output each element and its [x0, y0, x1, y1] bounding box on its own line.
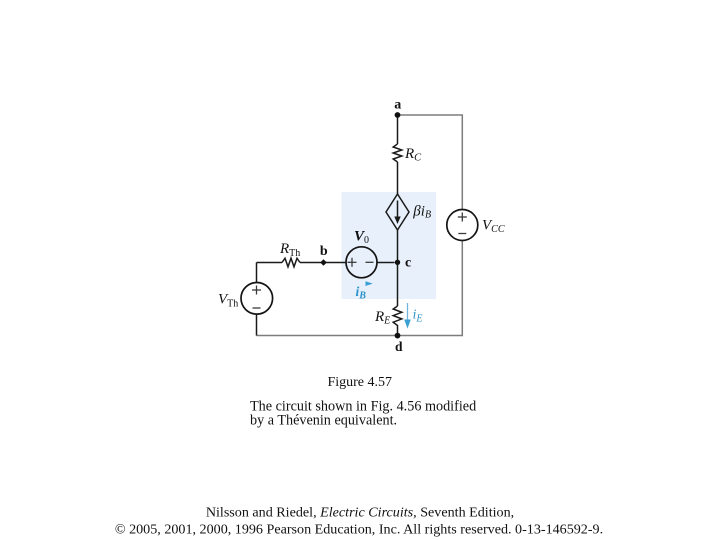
svg-text:Figure 4.57: Figure 4.57	[327, 375, 392, 390]
svg-text:iE: iE	[413, 306, 423, 324]
svg-text:RE: RE	[374, 309, 390, 327]
svg-text:a: a	[394, 97, 401, 112]
svg-text:Nilsson and Riedel, Electric C: Nilsson and Riedel, Electric Circuits, S…	[206, 505, 514, 521]
svg-text:VTh: VTh	[218, 292, 238, 310]
svg-text:VCC: VCC	[482, 218, 505, 236]
svg-text:b: b	[320, 244, 328, 259]
svg-text:RTh: RTh	[279, 241, 300, 259]
svg-text:d: d	[395, 339, 403, 354]
svg-text:by a Thévenin equivalent.: by a Thévenin equivalent.	[250, 413, 397, 429]
svg-text:c: c	[405, 255, 411, 270]
svg-text:© 2005, 2001, 2000, 1996 Pears: © 2005, 2001, 2000, 1996 Pearson Educati…	[115, 522, 603, 538]
svg-text:RC: RC	[404, 146, 422, 164]
